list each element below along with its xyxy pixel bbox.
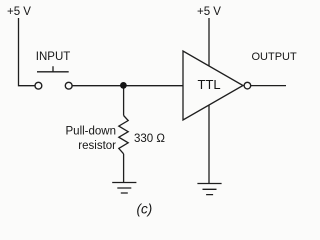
svg-text:OUTPUT: OUTPUT xyxy=(252,51,298,63)
svg-text:INPUT: INPUT xyxy=(36,51,71,63)
svg-text:Pull-down: Pull-down xyxy=(66,126,117,138)
svg-text:(c): (c) xyxy=(137,202,153,217)
svg-text:resistor: resistor xyxy=(78,140,116,152)
svg-text:TTL: TTL xyxy=(198,77,221,92)
svg-text:+5 V: +5 V xyxy=(7,6,31,18)
svg-text:+5 V: +5 V xyxy=(197,6,221,18)
svg-text:330 Ω: 330 Ω xyxy=(134,133,165,145)
